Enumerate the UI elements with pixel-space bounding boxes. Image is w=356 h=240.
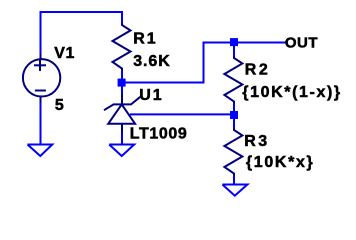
- svg-text:V1: V1: [54, 45, 75, 62]
- svg-text:5: 5: [55, 97, 64, 114]
- svg-text:R3: R3: [244, 133, 269, 150]
- svg-text:{10K*x}: {10K*x}: [246, 154, 314, 171]
- svg-text:U1: U1: [139, 87, 163, 104]
- svg-text:R2: R2: [245, 62, 270, 79]
- svg-text:LT1009: LT1009: [130, 126, 188, 143]
- svg-text:{10K*(1-x)}: {10K*(1-x)}: [242, 84, 341, 101]
- svg-text:R1: R1: [133, 30, 157, 47]
- svg-text:OUT: OUT: [285, 35, 318, 52]
- svg-text:3.6K: 3.6K: [133, 53, 171, 70]
